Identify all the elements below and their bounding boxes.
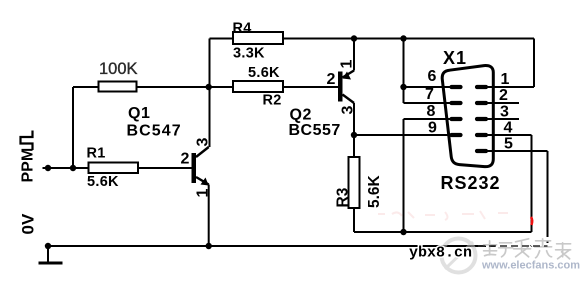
svg-text:5.6K: 5.6K xyxy=(87,174,119,190)
svg-text:3: 3 xyxy=(195,138,212,147)
svg-text:1: 1 xyxy=(195,189,212,198)
svg-text:5.6K: 5.6K xyxy=(366,174,383,208)
svg-text:www.elecfans.com: www.elecfans.com xyxy=(481,260,580,272)
svg-text:9: 9 xyxy=(428,120,437,137)
svg-text:X1: X1 xyxy=(443,48,467,68)
svg-text:R1: R1 xyxy=(87,146,106,162)
svg-text:7: 7 xyxy=(425,86,434,103)
svg-text:6: 6 xyxy=(428,68,437,85)
svg-text:2: 2 xyxy=(499,87,508,104)
svg-text:2: 2 xyxy=(181,151,190,168)
svg-text:BC557: BC557 xyxy=(289,122,341,139)
svg-text:1: 1 xyxy=(501,71,510,88)
svg-text:100K: 100K xyxy=(99,60,138,78)
svg-text:R2: R2 xyxy=(263,93,282,109)
svg-text:R4: R4 xyxy=(233,21,252,37)
svg-text:3: 3 xyxy=(500,104,509,121)
svg-text:3: 3 xyxy=(340,106,357,115)
svg-text:4: 4 xyxy=(504,120,513,137)
svg-text:R3: R3 xyxy=(335,187,352,207)
svg-text:3.3K: 3.3K xyxy=(233,46,265,62)
svg-text:Q2: Q2 xyxy=(290,107,312,124)
svg-text:ybx8.cn: ybx8.cn xyxy=(409,245,472,262)
svg-text:PPM: PPM xyxy=(20,148,37,183)
svg-text:8: 8 xyxy=(427,103,436,120)
svg-text:BC547: BC547 xyxy=(127,123,182,140)
svg-text:0V: 0V xyxy=(19,213,38,234)
svg-text:5.6K: 5.6K xyxy=(248,65,280,81)
svg-text:2: 2 xyxy=(327,71,336,88)
svg-text:RS232: RS232 xyxy=(441,173,501,193)
svg-text:1: 1 xyxy=(339,60,356,69)
svg-text:5: 5 xyxy=(504,136,513,153)
svg-text:Q1: Q1 xyxy=(128,105,150,122)
